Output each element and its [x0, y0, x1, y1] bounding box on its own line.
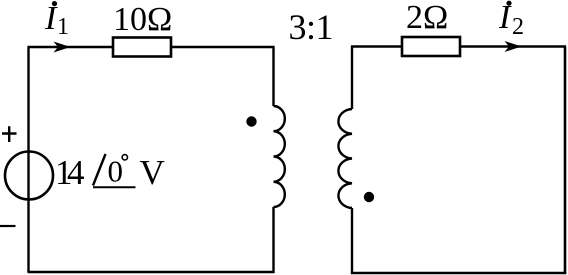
label 14 angle 0 deg V — [55, 153, 165, 192]
voltage source polarity plus — [2, 126, 17, 142]
svg-text:1: 1 — [57, 14, 69, 40]
wire: left loop top-left segment — [28, 46, 114, 48]
resistor 2ohm body — [402, 37, 460, 56]
current label I2 — [498, 0, 524, 40]
polarity dot primary — [246, 116, 256, 126]
wire: right loop top-left segment — [351, 45, 402, 47]
voltage source polarity minus — [0, 225, 16, 227]
svg-text:10Ω: 10Ω — [113, 1, 172, 38]
current label I1 — [44, 0, 69, 40]
wire: left loop right vertical top — [272, 46, 274, 106]
wire: right loop top-right segment — [460, 45, 566, 47]
wire: right loop right vertical — [564, 47, 567, 275]
current arrow I2 — [505, 41, 522, 52]
svg-text:0: 0 — [108, 154, 124, 189]
svg-text:3:1: 3:1 — [289, 7, 334, 47]
wire: left loop left vertical — [27, 47, 29, 272]
wire: right loop left vertical top — [351, 46, 353, 109]
voltage source Vs circle — [5, 152, 53, 200]
inductor primary winding — [274, 106, 285, 207]
svg-text:4: 4 — [67, 153, 85, 192]
svg-text:2: 2 — [512, 14, 524, 40]
wire: left loop bottom — [28, 271, 275, 274]
wire: right loop bottom — [351, 272, 566, 275]
polarity dot secondary — [364, 192, 374, 202]
inductor secondary winding — [338, 109, 352, 208]
current arrow I1 — [54, 42, 71, 53]
wire: left loop top-right segment — [171, 46, 275, 48]
svg-text:V: V — [140, 153, 165, 192]
wire: right loop left vertical bottom — [351, 208, 353, 274]
svg-text:2Ω: 2Ω — [406, 0, 448, 36]
resistor 10ohm body — [113, 38, 171, 57]
wire: left loop right vertical bottom — [272, 207, 274, 273]
